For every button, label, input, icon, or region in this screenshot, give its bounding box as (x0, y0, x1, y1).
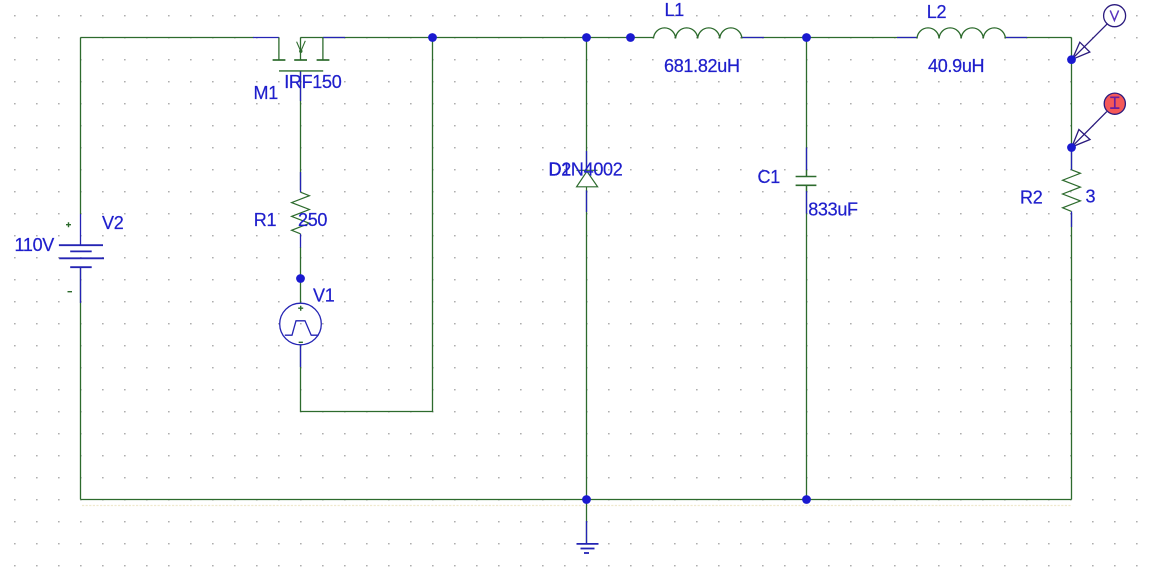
wire V1 bottom loop to drain node (301, 38, 433, 412)
svg-text:681.82uH: 681.82uH (664, 56, 740, 76)
node diode top junction (582, 33, 591, 42)
resistor R1 (292, 192, 310, 234)
inductor L1 (654, 28, 742, 39)
pin stub V1 bottom (300, 345, 302, 367)
node R1 V1 junction (296, 274, 305, 283)
node drain junction (428, 33, 437, 42)
pin stub M1 source (323, 37, 345, 39)
net highlight artifact line (82, 505, 1071, 507)
pin stub R2 bottom (1071, 211, 1073, 227)
pin stub V2 bottom (80, 267, 82, 303)
pin stub D2 cathode (586, 151, 588, 170)
ground symbol (577, 544, 599, 553)
source V2 battery (59, 245, 104, 267)
V2 minus sign (68, 291, 73, 293)
svg-text:R2: R2 (1020, 187, 1043, 207)
wire right rail (1071, 38, 1073, 170)
I probe glyph (1110, 97, 1119, 108)
wire C1 column top (806, 38, 808, 177)
pin stub D2 anode (586, 191, 588, 213)
pin stub ground (586, 521, 588, 544)
svg-text:M1: M1 (254, 83, 279, 103)
wire ground stub (586, 500, 588, 544)
node C1 bottom junction (802, 495, 811, 504)
pin stub C1 bottom (806, 191, 808, 214)
pin stub M1 gate (300, 71, 302, 101)
mosfet M1 IRF150 body (273, 38, 330, 71)
svg-text:L1: L1 (665, 0, 685, 20)
node I probe junction (1067, 143, 1076, 152)
diode D2 D1N4002 (577, 170, 598, 190)
wire diode column (586, 38, 588, 171)
pin stub V2 top (80, 214, 82, 245)
svg-text:R1: R1 (254, 210, 277, 230)
wire diode anode to bottom rail (586, 190, 588, 500)
wire R1 to V1 (300, 247, 302, 303)
source V1 pulse (280, 303, 322, 345)
node L1 left junction (626, 33, 635, 42)
svg-text:3: 3 (1086, 186, 1096, 206)
voltage probe V (1072, 5, 1125, 60)
resistor R2 (1063, 170, 1081, 212)
V probe letter (1110, 10, 1118, 20)
pin stub L2 left (897, 37, 917, 39)
wire gate column M1 to R1 (300, 71, 302, 190)
pin stub C1 top (806, 148, 808, 171)
svg-text:D1N4002: D1N4002 (549, 159, 623, 179)
wire C1 bottom to bottom rail (806, 186, 808, 500)
svg-text:110V: 110V (15, 235, 55, 255)
wire bottom rail (81, 499, 1072, 501)
svg-text:833uF: 833uF (808, 199, 858, 219)
svg-text:L2: L2 (927, 2, 947, 22)
current probe I (1072, 93, 1126, 147)
pin stub L2 right (1006, 37, 1028, 39)
wire left rail below V2 (80, 267, 82, 499)
pin stub R1 top (300, 172, 302, 192)
wire left rail (V2 branch) (80, 38, 82, 215)
pin stub R1 bottom (300, 234, 302, 248)
pin stub R2 top (1071, 148, 1073, 171)
wire top rail from V2+ corner to right rail corner (81, 37, 254, 39)
svg-text:V2: V2 (102, 213, 124, 233)
svg-text:C1: C1 (758, 167, 781, 187)
svg-text:V1: V1 (313, 285, 335, 305)
pin stub L1 right (742, 37, 764, 39)
node diode bottom junction (582, 495, 591, 504)
svg-text:IRF150: IRF150 (284, 72, 342, 92)
node V probe junction (1067, 55, 1076, 64)
capacitor C1 (796, 170, 817, 191)
svg-text:40.9uH: 40.9uH (928, 56, 984, 76)
pin stub M1 drain (253, 37, 279, 39)
node C1 top junction (802, 33, 811, 42)
V1 minus sign (299, 341, 303, 343)
svg-text:250: 250 (298, 210, 327, 230)
inductor L2 (917, 28, 1005, 39)
V1 plus sign (298, 306, 303, 311)
V2 plus sign (66, 222, 71, 227)
